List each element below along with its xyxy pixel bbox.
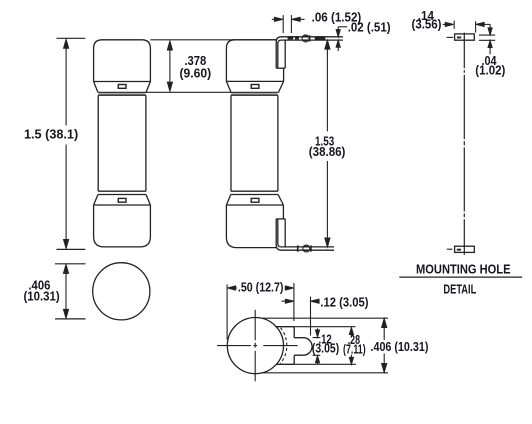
svg-text:(1.02): (1.02) — [475, 63, 505, 78]
dimension .12 (3.05) top extension line — [310, 297, 312, 336]
dimension .06 (1.52) arrows — [272, 17, 305, 21]
fuse F1 body — [98, 95, 146, 191]
svg-text:DETAIL: DETAIL — [443, 282, 476, 296]
dimension .28 extension continuation — [294, 327, 356, 365]
svg-text:MOUNTING HOLE: MOUNTING HOLE — [416, 262, 511, 276]
fuse F2 bottom cap outline — [226, 195, 283, 248]
dimension .50 (12.7) arrows — [228, 286, 294, 290]
fuse F2 top lead — [286, 35, 343, 42]
svg-text:1.5 (38.1): 1.5 (38.1) — [24, 127, 78, 142]
dimension 1.53 (38.86) arrow line — [325, 40, 330, 246]
svg-text:.406 (10.31): .406 (10.31) — [371, 339, 429, 354]
dimension .12 (3.05) middle arrows — [316, 328, 320, 364]
fuse F2 bottom cap slot — [251, 198, 259, 202]
dimension .406 (10.31) right extension lines — [262, 318, 388, 373]
fuse F2 top cap slot — [251, 85, 259, 89]
dimension .406 (10.31) left ticks — [55, 264, 86, 319]
svg-text:(7.11): (7.11) — [343, 341, 366, 356]
fuse F1 cap-body gray band — [99, 93, 146, 95]
svg-text:(38.86): (38.86) — [309, 144, 346, 159]
side view top centerline dash — [447, 36, 454, 38]
side view top tab slot — [457, 37, 461, 39]
dimension .12 (3.05) top arrows — [282, 299, 320, 303]
dim extension line cap-top level between fuses — [150, 39, 276, 41]
fuse F1 bottom cap slot — [118, 198, 126, 202]
fuse F2 cap-body gray band — [231, 93, 277, 95]
dimension .378 (9.60) arrow line — [167, 41, 172, 91]
keyhole horizontal centerline — [217, 345, 298, 347]
dimension .28 (7.11) arrows — [349, 328, 353, 365]
fuse F1 top cap slot — [118, 85, 126, 89]
fuse F1 bottom cap outline — [94, 195, 151, 247]
svg-text:(3.56): (3.56) — [412, 16, 442, 31]
svg-text:(3.05): (3.05) — [312, 341, 339, 356]
fuse F2 top lead crimp — [315, 36, 326, 40]
svg-text:(9.60): (9.60) — [180, 65, 212, 80]
dimension .02 (.51) leader — [336, 27, 347, 51]
rule under MOUNTING HOLE — [399, 276, 522, 278]
dimension .06 (1.52) extension lines — [283, 15, 291, 33]
mounting hole keyhole circle — [227, 318, 283, 374]
fuse F2 bottom lead — [286, 245, 334, 252]
side view vertical centerline — [463, 33, 465, 255]
fuse F2 top cap outline — [226, 40, 283, 93]
dimension .04 (1.02) extension lines — [479, 35, 495, 40]
svg-text:.12 (3.05): .12 (3.05) — [320, 295, 368, 310]
dimension .12 (3.05) middle extension dashes — [313, 338, 321, 356]
dimension .04 (1.02) arrows — [488, 24, 492, 54]
side view bottom centerline dash — [447, 248, 453, 250]
fuse F1 top cap outline — [94, 40, 151, 93]
keyhole slot outline — [277, 327, 313, 365]
side view bottom tab slot — [457, 249, 461, 251]
svg-text:.50 (12.7): .50 (12.7) — [238, 279, 284, 294]
mounting-hole side view top tab — [455, 34, 475, 40]
fuse F2 body — [231, 95, 278, 191]
dimension 1.5 (38.1) arrow line — [64, 40, 69, 249]
circle view of fuse end — [93, 263, 150, 320]
keyhole hidden dashed arc — [281, 328, 287, 364]
fuse F2 bottom terminal tab — [276, 219, 286, 250]
mounting-hole side view bottom tab — [455, 246, 475, 252]
svg-text:(10.31): (10.31) — [24, 289, 60, 304]
dimension .50 (12.7) extension lines — [227, 283, 294, 340]
dimension .14 (3.56) arrows — [443, 21, 491, 33]
dimension .406 (10.31) right arrow line — [382, 319, 387, 373]
keyhole vertical centerline — [254, 310, 256, 381]
fuse F2 top terminal tab — [276, 37, 286, 68]
dimension 1.5 (38.1) ticks — [57, 38, 86, 249]
dim extension line skirt-bottom level across fuses — [98, 91, 279, 93]
svg-text:.02 (.51): .02 (.51) — [348, 20, 391, 35]
dimension .406 (10.31) left arrow line — [64, 265, 69, 319]
